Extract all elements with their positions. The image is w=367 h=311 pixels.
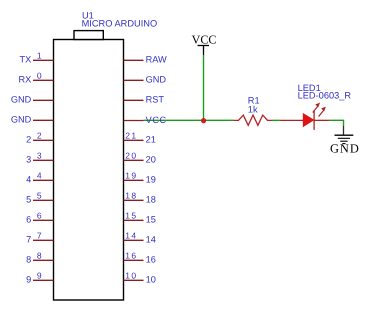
svg-text:GND: GND — [11, 115, 32, 125]
svg-text:2: 2 — [26, 135, 31, 145]
svg-text:VCC: VCC — [146, 115, 167, 125]
svg-text:7: 7 — [37, 231, 42, 241]
svg-text:2: 2 — [37, 131, 42, 141]
LED LED1 cathode bar — [313, 110, 315, 130]
svg-text:18: 18 — [125, 191, 137, 201]
pin TX (left row 1) of U1 — [20, 51, 54, 65]
svg-text:GND: GND — [11, 95, 32, 105]
pin GND (left row 3) of U1 — [11, 95, 54, 105]
pin 20 (right row 6) of U1 — [124, 151, 144, 161]
svg-text:8: 8 — [37, 251, 42, 261]
svg-text:16: 16 — [146, 255, 156, 265]
svg-text:3: 3 — [26, 155, 31, 165]
svg-text:21: 21 — [125, 131, 137, 141]
svg-text:10: 10 — [125, 271, 137, 281]
pin GND (left row 4) of U1 — [11, 115, 54, 125]
svg-text:21: 21 — [146, 135, 156, 145]
svg-text:15: 15 — [125, 211, 137, 221]
svg-text:5: 5 — [26, 195, 31, 205]
svg-text:TX: TX — [20, 55, 32, 65]
pin 21 (right row 5) of U1 — [124, 131, 144, 141]
IC U1 body — [54, 40, 124, 301]
wire resistor R1 to LED1 — [273, 119, 281, 121]
svg-text:GND: GND — [146, 75, 167, 85]
svg-text:9: 9 — [37, 271, 42, 281]
pin VCC (right row 4) of U1 — [124, 120, 144, 122]
LED LED1 triangle — [303, 114, 314, 127]
svg-text:20: 20 — [125, 151, 137, 161]
wire LED1 to ground corner — [330, 120, 344, 126]
LED LED1 anode lead — [280, 119, 303, 121]
pin GND (right row 2) of U1 — [124, 79, 144, 81]
pin 7 (left row 10) of U1 — [26, 231, 53, 245]
pin 14 (right row 10) of U1 — [124, 231, 144, 241]
svg-text:7: 7 — [26, 235, 31, 245]
LED LED1 cathode lead — [314, 119, 330, 121]
pin 2 (left row 5) of U1 — [26, 131, 53, 145]
pin 3 (left row 6) of U1 — [26, 151, 53, 165]
svg-text:8: 8 — [26, 255, 31, 265]
pin 5 (left row 8) of U1 — [26, 191, 53, 205]
svg-text:14: 14 — [146, 235, 156, 245]
pin 4 (left row 7) of U1 — [26, 171, 53, 185]
IC U1 top tab — [74, 31, 103, 40]
svg-text:16: 16 — [125, 251, 137, 261]
pin 10 (right row 12) of U1 — [124, 271, 144, 281]
svg-text:MICRO ARDUINO: MICRO ARDUINO — [82, 19, 158, 29]
pin RAW (right row 1) of U1 — [124, 59, 144, 61]
pin 16 (right row 11) of U1 — [124, 251, 144, 261]
svg-text:4: 4 — [37, 171, 42, 181]
pin 18 (right row 8) of U1 — [124, 191, 144, 201]
svg-text:5: 5 — [37, 191, 42, 201]
svg-text:RX: RX — [19, 75, 32, 85]
svg-text:1: 1 — [37, 51, 42, 61]
svg-text:LED-0603_R: LED-0603_R — [298, 91, 352, 101]
pin 8 (left row 11) of U1 — [26, 251, 53, 265]
supply symbol VCC — [192, 33, 217, 55]
svg-text:3: 3 — [37, 151, 42, 161]
pin RST (right row 3) of U1 — [124, 99, 144, 101]
wire VCC net vertical from supply symbol — [203, 55, 205, 120]
svg-text:RST: RST — [146, 95, 165, 105]
svg-text:15: 15 — [146, 215, 156, 225]
pin 15 (right row 9) of U1 — [124, 211, 144, 221]
svg-text:1k: 1k — [248, 104, 258, 114]
pin 19 (right row 7) of U1 — [124, 171, 144, 181]
ground symbol earth bars — [335, 126, 354, 144]
svg-text:6: 6 — [26, 215, 31, 225]
svg-text:9: 9 — [26, 275, 31, 285]
svg-text:RAW: RAW — [146, 55, 167, 65]
svg-text:19: 19 — [125, 171, 137, 181]
LED LED1 emission arrow 2 — [319, 107, 326, 117]
LED LED1 emission arrow 1 — [313, 103, 320, 113]
svg-text:20: 20 — [146, 155, 156, 165]
svg-text:14: 14 — [125, 231, 137, 241]
pin 6 (left row 9) of U1 — [26, 211, 53, 225]
svg-text:18: 18 — [146, 195, 156, 205]
svg-text:19: 19 — [146, 175, 156, 185]
svg-text:0: 0 — [37, 71, 42, 81]
svg-text:VCC: VCC — [192, 33, 217, 47]
svg-text:10: 10 — [146, 275, 156, 285]
resistor R1 — [234, 115, 273, 125]
wire VCC net horizontal from U1 VCC pin to resistor R1 — [144, 119, 234, 121]
svg-text:4: 4 — [26, 175, 31, 185]
pin 9 (left row 12) of U1 — [26, 271, 53, 285]
svg-text:6: 6 — [37, 211, 42, 221]
pin RX (left row 2) of U1 — [19, 71, 54, 85]
junction on VCC net — [201, 118, 206, 123]
svg-text:GND: GND — [330, 141, 360, 155]
